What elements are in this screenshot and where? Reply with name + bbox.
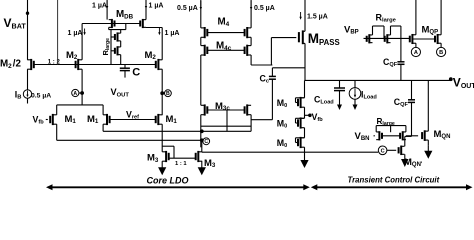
svg-text:A: A (414, 50, 418, 56)
svg-text:0.5 µA: 0.5 µA (177, 5, 198, 12)
svg-text:1 µA: 1 µA (68, 30, 83, 37)
svg-text:1 µA: 1 µA (165, 30, 180, 37)
svg-text:C: C (204, 139, 208, 145)
svg-text:Transient Control Circuit: Transient Control Circuit (348, 175, 440, 184)
svg-text:B: B (439, 50, 443, 56)
svg-text:0.5 µA: 0.5 µA (31, 93, 51, 100)
svg-text:C: C (132, 67, 140, 79)
svg-text:C: C (381, 148, 385, 154)
svg-text:1.5 µA: 1.5 µA (307, 13, 328, 20)
svg-text:1 µA: 1 µA (149, 2, 164, 9)
svg-text:Core LDO: Core LDO (147, 175, 189, 185)
svg-text:1 : 1: 1 : 1 (175, 161, 187, 167)
svg-text:B: B (166, 91, 170, 97)
svg-text:/2: /2 (13, 59, 22, 70)
svg-text:A: A (73, 91, 77, 97)
svg-text:1 : 2: 1 : 2 (48, 59, 61, 65)
svg-text:1 µA: 1 µA (92, 2, 107, 9)
svg-text:0.5 µA: 0.5 µA (254, 5, 275, 12)
